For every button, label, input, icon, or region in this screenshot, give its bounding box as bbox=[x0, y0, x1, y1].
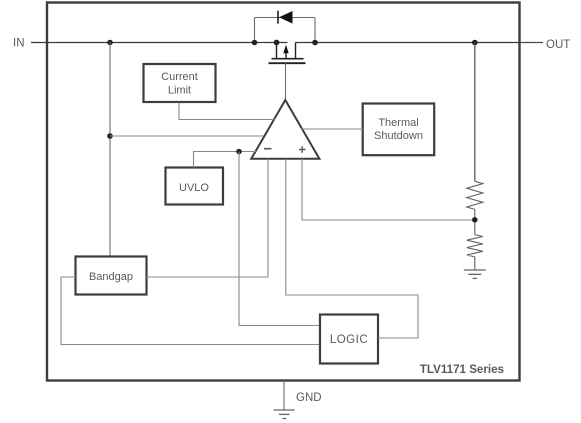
node output rail junction bbox=[472, 40, 478, 46]
block Thermal Shutdown bbox=[363, 104, 435, 156]
svg-text:Thermal: Thermal bbox=[378, 117, 418, 129]
op-amp plus sign bbox=[299, 149, 306, 151]
svg-text:Shutdown: Shutdown bbox=[374, 130, 423, 142]
svg-text:OUT: OUT bbox=[546, 39, 570, 51]
wire Current Limit to error amp bbox=[179, 103, 275, 120]
node error-amp supply tap bbox=[107, 133, 113, 139]
svg-text:Bandgap: Bandgap bbox=[89, 271, 133, 283]
wire error amp to Thermal Shutdown bbox=[302, 128, 363, 130]
block LOGIC bbox=[320, 315, 378, 364]
node feedback tap bbox=[472, 217, 478, 223]
wire output junction down to divider bbox=[474, 43, 476, 182]
node diode cathode (IN side) bbox=[252, 40, 258, 46]
svg-text:UVLO: UVLO bbox=[179, 182, 209, 194]
wire R2 to ground bbox=[474, 257, 476, 270]
wire R1 to R2 through tap bbox=[474, 209, 476, 234]
ground GND pin bbox=[274, 410, 295, 419]
op-amp minus sign bbox=[264, 148, 272, 150]
resistor R2 bbox=[467, 235, 483, 257]
wire OUT lead bbox=[520, 42, 543, 44]
wire inverting node down to LOGIC bbox=[239, 152, 320, 326]
wire Bandgap to LOGIC bbox=[61, 277, 320, 345]
body diode D1 bbox=[255, 18, 316, 43]
wire LOGIC to error amp output bbox=[286, 159, 418, 338]
op-amp U1 error amplifier bbox=[251, 100, 319, 159]
ground divider bbox=[464, 270, 486, 278]
node inverting input bbox=[236, 149, 242, 155]
transistor Q1 PMOS pass FET bbox=[269, 43, 306, 64]
svg-text:Current: Current bbox=[161, 71, 198, 83]
wire gate lead to op-amp bbox=[285, 63, 287, 100]
IC boundary box bbox=[47, 3, 520, 381]
svg-text:TLV1171 Series: TLV1171 Series bbox=[420, 363, 504, 376]
wire output rail bbox=[296, 42, 521, 44]
node input rail junction bbox=[107, 40, 113, 46]
resistor R1 bbox=[467, 181, 483, 209]
svg-text:Limit: Limit bbox=[168, 85, 191, 97]
block Current Limit bbox=[144, 64, 216, 102]
svg-text:LOGIC: LOGIC bbox=[330, 334, 368, 346]
svg-text:GND: GND bbox=[296, 392, 322, 404]
wire Bandgap to inverting input of error amp bbox=[147, 159, 269, 277]
wire GND pin stem bbox=[283, 381, 285, 411]
wire non-inverting input to feedback node bbox=[302, 159, 475, 220]
block UVLO bbox=[166, 168, 224, 205]
node diode anode (OUT side) bbox=[312, 40, 318, 46]
block Bandgap bbox=[76, 257, 147, 295]
wire supply tap to error amp left edge bbox=[110, 135, 265, 137]
svg-text:IN: IN bbox=[13, 38, 25, 50]
wire IN lead and input rail bbox=[31, 42, 288, 44]
wire UVLO to inverting input bbox=[194, 152, 257, 168]
wire input rail junction down to Bandgap bbox=[109, 43, 111, 257]
node source junction bbox=[274, 40, 280, 46]
